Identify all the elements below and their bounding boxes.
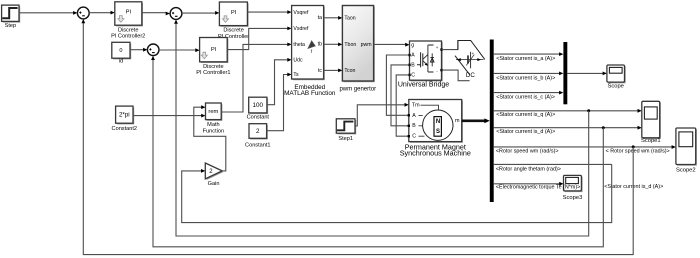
wire Rotor speed wm from Bus Selector to Scope2 [493, 146, 672, 148]
pwm generator block [339, 6, 376, 93]
svg-text:theta: theta [293, 42, 305, 48]
svg-text:C: C [412, 134, 416, 140]
port dot bridge A [408, 54, 410, 56]
svg-text:+: + [472, 51, 475, 56]
svg-text:Step: Step [5, 23, 17, 29]
svg-text:PI Controller2: PI Controller2 [111, 34, 145, 40]
svg-text:tb: tb [318, 42, 322, 48]
svg-text:Universal Bridge: Universal Bridge [398, 82, 449, 89]
wire Step1 to Tm [355, 105, 405, 126]
svg-text:A: A [412, 113, 416, 119]
scope block Scope3 [563, 175, 583, 201]
svg-text:pwm genertor: pwm genertor [339, 86, 376, 92]
svg-text:B: B [412, 123, 416, 129]
svg-text:<Stator current is_d (A)>: <Stator current is_d (A)> [496, 129, 555, 135]
wire is_a from Bus Selector to Mux [493, 53, 560, 55]
svg-text:Synchronous Machine: Synchronous Machine [400, 149, 471, 158]
svg-text:Constant2: Constant2 [112, 126, 138, 132]
svg-text:MATLAB Function: MATLAB Function [284, 90, 336, 97]
Universal Bridge block [398, 41, 449, 89]
svg-text:Scope3: Scope3 [563, 195, 583, 201]
constant Constant2 (2*pi) [112, 106, 138, 132]
Permanent Magnet Synchronous Machine block [400, 100, 471, 158]
wire Step to Sum1 [19, 12, 74, 14]
wire PI Controller to Vsqref [247, 11, 288, 13]
wire is_b from Bus Selector to Mux [493, 72, 560, 74]
svg-text:PI Controller1: PI Controller1 [196, 70, 230, 76]
PI block U2 Discrete PI Controller [218, 2, 249, 40]
wire feedback thetam to Gain [182, 164, 612, 222]
math function rem [203, 103, 224, 134]
wire bridge A to machine A [386, 55, 409, 115]
PI block U1 Discrete PI Controller2 [111, 2, 145, 40]
svg-text:< Rotor speed wm (rad/s)>: < Rotor speed wm (rad/s)> [606, 148, 670, 154]
wire Math Function to theta [221, 44, 288, 112]
wire pwm to bridge g [374, 43, 406, 45]
wire feedback Rotor speed wm to Sum1 [83, 22, 633, 255]
wire bridge + to DC source [442, 41, 458, 50]
wire bridge B to machine B [391, 65, 410, 126]
svg-text:PI: PI [231, 10, 237, 16]
constant Constant (100) [247, 97, 270, 120]
svg-text:Discrete: Discrete [223, 28, 244, 34]
svg-text:+: + [436, 45, 439, 50]
svg-text:<Stator current is_a (A)>: <Stator current is_a (A)> [496, 56, 555, 62]
bus wire machine m to Bus Selector [462, 120, 486, 123]
svg-text:tc: tc [318, 68, 322, 74]
svg-text:2*pi: 2*pi [119, 112, 130, 119]
svg-text:Constant1: Constant1 [245, 142, 271, 148]
port dot bridge + [440, 48, 442, 50]
wire Mux to Scope [567, 72, 604, 74]
wire bridge C to machine C [396, 75, 409, 136]
svg-text:<Stator current is_q (A)>: <Stator current is_q (A)> [496, 112, 555, 118]
svg-text:Math: Math [207, 122, 219, 128]
wire Electromagnetic torque to Scope3 [493, 183, 560, 185]
DC voltage source [455, 41, 485, 79]
svg-text:Ts: Ts [293, 72, 299, 78]
svg-text:Scope2: Scope2 [676, 168, 696, 174]
svg-text:ta: ta [318, 15, 322, 21]
svg-text:0: 0 [119, 48, 122, 54]
svg-text:Step1: Step1 [338, 136, 353, 142]
svg-text:Constant: Constant [247, 114, 270, 120]
svg-text:N: N [436, 119, 440, 125]
wire tb to Tbon [324, 43, 339, 45]
wire Rotor angle thetam from Bus Selector [493, 163, 611, 165]
wire feedback is_q to Sum3 [176, 23, 589, 236]
svg-text:Vsqref: Vsqref [293, 10, 309, 16]
svg-text:Discrete: Discrete [203, 64, 224, 70]
port dot bridge C [408, 74, 410, 76]
wire Constant to Udc [267, 60, 288, 105]
svg-text:<Rotor angle thetam (rad)>: <Rotor angle thetam (rad)> [496, 167, 561, 173]
wire PI Controller1 to Vsdref [227, 28, 288, 49]
scope block Scope2 [676, 128, 697, 174]
wire Constant1 to Ts [267, 75, 288, 131]
svg-text:g: g [411, 43, 414, 49]
wire is_c from Bus Selector to Mux [493, 92, 560, 94]
constant id (0) [112, 42, 131, 64]
svg-text:<Stator current is_c (A)>: <Stator current is_c (A)> [496, 95, 555, 101]
step source Step [2, 5, 21, 29]
svg-text:C: C [411, 72, 415, 78]
svg-text:Function: Function [203, 128, 224, 134]
svg-text:B: B [411, 62, 415, 68]
svg-text:id: id [119, 59, 123, 65]
scope block Scope [607, 65, 626, 90]
wire is_d from Bus Selector to Scope1 [493, 127, 638, 129]
wire Sum2 to PI Controller1 [159, 49, 196, 51]
svg-text:Discrete: Discrete [118, 27, 139, 33]
wire Gain output to Math Function upper input (routed) [194, 107, 226, 171]
sum junction Sum2 (d current error) [147, 44, 159, 56]
step source Step1 [336, 119, 356, 142]
svg-text:<Electromagnetic torque Te (N*: <Electromagnetic torque Te (N*m)> [496, 184, 580, 190]
Embedded MATLAB Function block [284, 6, 336, 98]
PI block U3 Discrete PI Controller1 [196, 38, 230, 77]
wire feedback is_d to Sum2 [153, 59, 603, 247]
svg-text:PI: PI [211, 47, 217, 53]
wire Sum1 to PI controller2 [89, 12, 111, 14]
svg-text:Tbon: Tbon [344, 42, 356, 48]
wire ta to Taon [324, 17, 339, 19]
svg-text:rem: rem [208, 109, 218, 115]
port dot machine B [408, 125, 410, 127]
junction is_q [587, 109, 590, 112]
svg-text:Tcon: Tcon [344, 68, 355, 74]
wire bridge - to DC source [442, 70, 470, 81]
port dot machine C [408, 135, 410, 137]
svg-text:A: A [411, 52, 415, 58]
svg-text:DC: DC [466, 72, 475, 79]
wire tc to Tcon [324, 69, 339, 71]
svg-text:PI: PI [126, 10, 132, 16]
scope block Scope1 [641, 101, 661, 144]
svg-text:Scope1: Scope1 [641, 138, 661, 144]
svg-text:m: m [455, 118, 460, 124]
sum junction Sum3 (q current error) [170, 8, 182, 20]
svg-text:<Rotor speed wm (rad/s)>: <Rotor speed wm (rad/s)> [496, 148, 559, 154]
svg-text:<Stator current is_b (A)>: <Stator current is_b (A)> [496, 75, 555, 81]
port dot machine A [408, 114, 410, 116]
svg-text:Udc: Udc [293, 57, 303, 63]
svg-text:Vsdref: Vsdref [293, 26, 309, 32]
svg-text:Taon: Taon [344, 15, 355, 21]
wire PI Controller2 to Sum3 [142, 12, 167, 14]
wire is_q from Bus Selector to Scope1 [493, 110, 638, 112]
IGBT symbol inside bridge [417, 52, 423, 67]
svg-text:S: S [436, 129, 440, 135]
junction Rotor speed wm [632, 145, 635, 148]
gain block Gain (2) [205, 163, 223, 187]
wire Constant2 to Math Function lower input [133, 115, 202, 117]
svg-text:Tm: Tm [412, 103, 420, 109]
wire Sum3 to PI Controller [182, 12, 216, 14]
junction is_d [602, 126, 605, 129]
svg-text:Gain: Gain [208, 181, 220, 187]
constant Constant1 (2) [245, 124, 271, 149]
port dot bridge B [408, 64, 410, 66]
svg-text:100: 100 [253, 102, 264, 109]
Bus Selector bar [490, 40, 494, 203]
port dot bridge - [440, 69, 442, 71]
svg-text:pwm: pwm [361, 42, 372, 48]
Mux bar [563, 42, 567, 104]
wire id to Sum2 [130, 49, 144, 51]
svg-text:2: 2 [256, 128, 260, 135]
sum junction Sum1 (speed error) [77, 7, 89, 19]
svg-text:Scope: Scope [607, 84, 623, 90]
